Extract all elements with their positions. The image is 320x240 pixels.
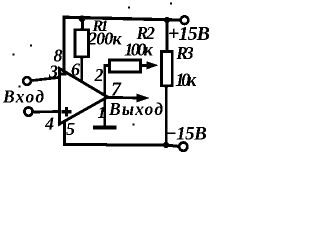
svg-text:−15В: −15В [165,123,207,144]
wire R3 bottom lead [165,85,168,145]
svg-text:R3: R3 [175,43,194,63]
label plus input sign [62,107,72,117]
ground [93,126,117,130]
terminal +15V [181,16,189,24]
node junction R3 bottom [163,142,169,148]
wire R1 bottom lead to pin 6 [80,57,83,83]
wire left vertical to pin 8 [62,17,65,72]
svg-text:100к: 100к [124,39,153,59]
speck [12,53,14,55]
wire output pin 7 arrow [108,96,139,99]
speck [132,123,134,125]
svg-text:5: 5 [66,119,75,139]
svg-text:2: 2 [94,65,104,85]
wire bottom rail [65,145,179,147]
label minus input sign [60,73,67,76]
wire R3 top lead [165,20,168,52]
wire top rail from feedback corner to +15V terminal [64,17,181,20]
wire pin 1 to ground stem [103,99,106,128]
svg-text:6: 6 [71,60,80,80]
wire R1 top lead [81,19,84,30]
svg-text:10к: 10к [175,71,197,91]
speck [170,2,172,4]
potentiometer R3 [161,51,172,85]
resistor R2 [109,60,140,72]
terminal input upper [23,77,31,85]
node junction R3 top on rail [164,17,170,23]
svg-text:4: 4 [44,114,54,134]
speck [128,6,130,8]
speck [18,85,20,87]
wire pin 5 down [63,123,66,145]
wire pin 4 input [34,110,59,113]
resistor R1 [75,30,89,57]
node junction R1 top on rail [79,15,86,22]
svg-text:Вход: Вход [2,87,44,107]
svg-text:200к: 200к [87,29,122,49]
wire pin 3 input [32,78,58,81]
wire R2 right lead wiper arrow into R3 [141,64,149,67]
speck [30,44,32,46]
wire pin 2 from R2 left lead [105,65,110,95]
svg-text:+15В: +15В [168,23,210,45]
terminal input lower [24,108,32,116]
op-amp U1 triangle [60,69,108,125]
svg-text:Выход: Выход [108,99,163,119]
terminal -15V [179,143,187,151]
